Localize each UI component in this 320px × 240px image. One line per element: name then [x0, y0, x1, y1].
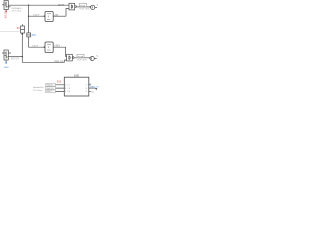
wire C1 down long [22, 33, 64, 62]
svg-text:+5V: +5V [54, 15, 59, 17]
svg-text:5V_IN: 5V_IN [5, 11, 8, 18]
wire Q1 stub2 [8, 6, 10, 8]
svg-text:GND: GND [4, 67, 9, 69]
node junction before J1 [90, 6, 91, 7]
power flag PWR red arrow [5, 11, 7, 13]
wire U6 out [53, 47, 66, 56]
svg-text:3V3A: 3V3A [78, 55, 84, 58]
wire vertical drop [28, 5, 30, 33]
svg-text:NC: NC [91, 91, 95, 93]
node junction Q2 line [22, 56, 23, 57]
svg-text:P2.54mm: P2.54mm [33, 90, 43, 92]
label box VOUT1 [80, 3, 87, 7]
svg-text:100nF: 100nF [32, 46, 39, 48]
pin dot box U3 [44, 16, 45, 17]
label box VOUT2 [77, 54, 84, 58]
ground flag blue [5, 62, 7, 64]
wire top rail [8, 4, 69, 6]
wire Q2 bottom [5, 60, 7, 62]
wire Q2 out [8, 56, 22, 58]
svg-text:SWDIO: SWDIO [46, 85, 53, 87]
wire C2 down to row3 [29, 37, 45, 47]
svg-text:3V3: 3V3 [57, 81, 62, 84]
node junction top rail [28, 5, 29, 6]
svg-text:SWO_TX: SWO_TX [90, 86, 99, 88]
wire J2 stub [94, 58, 96, 60]
wire pin4 [89, 87, 96, 89]
svg-text:Header3x2: Header3x2 [33, 86, 44, 89]
wire Q2 right stub [8, 52, 11, 54]
wire riser to gate1 [66, 9, 69, 17]
wire J1 stub [95, 6, 97, 8]
wire C1 top stub [21, 24, 23, 26]
capacitor C1 [21, 26, 25, 33]
faint sheet line [0, 31, 20, 33]
wire pin5 [46, 90, 64, 92]
gate U7A [67, 54, 74, 61]
node junction below C1 [21, 33, 23, 35]
connector J1 circle [91, 5, 95, 9]
svg-text:100nF: 100nF [33, 14, 40, 16]
svg-text:5V: 5V [17, 27, 20, 30]
transistor Q1 [4, 1, 8, 10]
svg-text:SOT-23: SOT-23 [11, 59, 19, 61]
wire Q1 bottom [5, 10, 7, 12]
pin dot U6 [44, 47, 45, 48]
wire enable line step [65, 60, 67, 62]
regulator U6 [45, 42, 53, 52]
svg-text:SOT-23-6: SOT-23-6 [12, 10, 22, 12]
svg-text:SWD: SWD [74, 76, 80, 78]
ground flag pin4 [95, 88, 97, 90]
connector J2 circle [90, 56, 94, 60]
transistor Q2 [4, 50, 8, 60]
svg-text:+3V3: +3V3 [54, 46, 60, 48]
svg-text:3V3: 3V3 [32, 35, 37, 37]
svg-text:+BATT: +BATT [57, 4, 65, 7]
regulator U3 [45, 12, 53, 22]
wire Q2 left stub [2, 52, 4, 54]
wire gate1 out [77, 6, 91, 8]
capacitor C2 [27, 33, 31, 37]
svg-text:PWR_EN: PWR_EN [54, 61, 64, 63]
wire pin2 stub [89, 84, 91, 86]
wire U3 output [53, 15, 66, 17]
wire gate2 out [74, 57, 90, 59]
wire pin6 stub [89, 90, 91, 92]
svg-text:5V-A: 5V-A [80, 4, 85, 7]
wire row2 [29, 15, 45, 17]
node junction row2 [28, 16, 29, 17]
svg-text:OUT_3V3: OUT_3V3 [77, 59, 88, 61]
node junction before J2 [89, 57, 90, 58]
IC U5 [64, 77, 89, 96]
wire Q1 left stub [2, 4, 4, 6]
svg-text:OUT_5V0: OUT_5V0 [80, 9, 91, 11]
svg-text:NRST: NRST [46, 91, 52, 93]
svg-text:SWCLK: SWCLK [46, 88, 54, 90]
wire pin1 [46, 84, 64, 86]
wire pin3 [46, 87, 64, 89]
gate U4A [69, 3, 76, 10]
